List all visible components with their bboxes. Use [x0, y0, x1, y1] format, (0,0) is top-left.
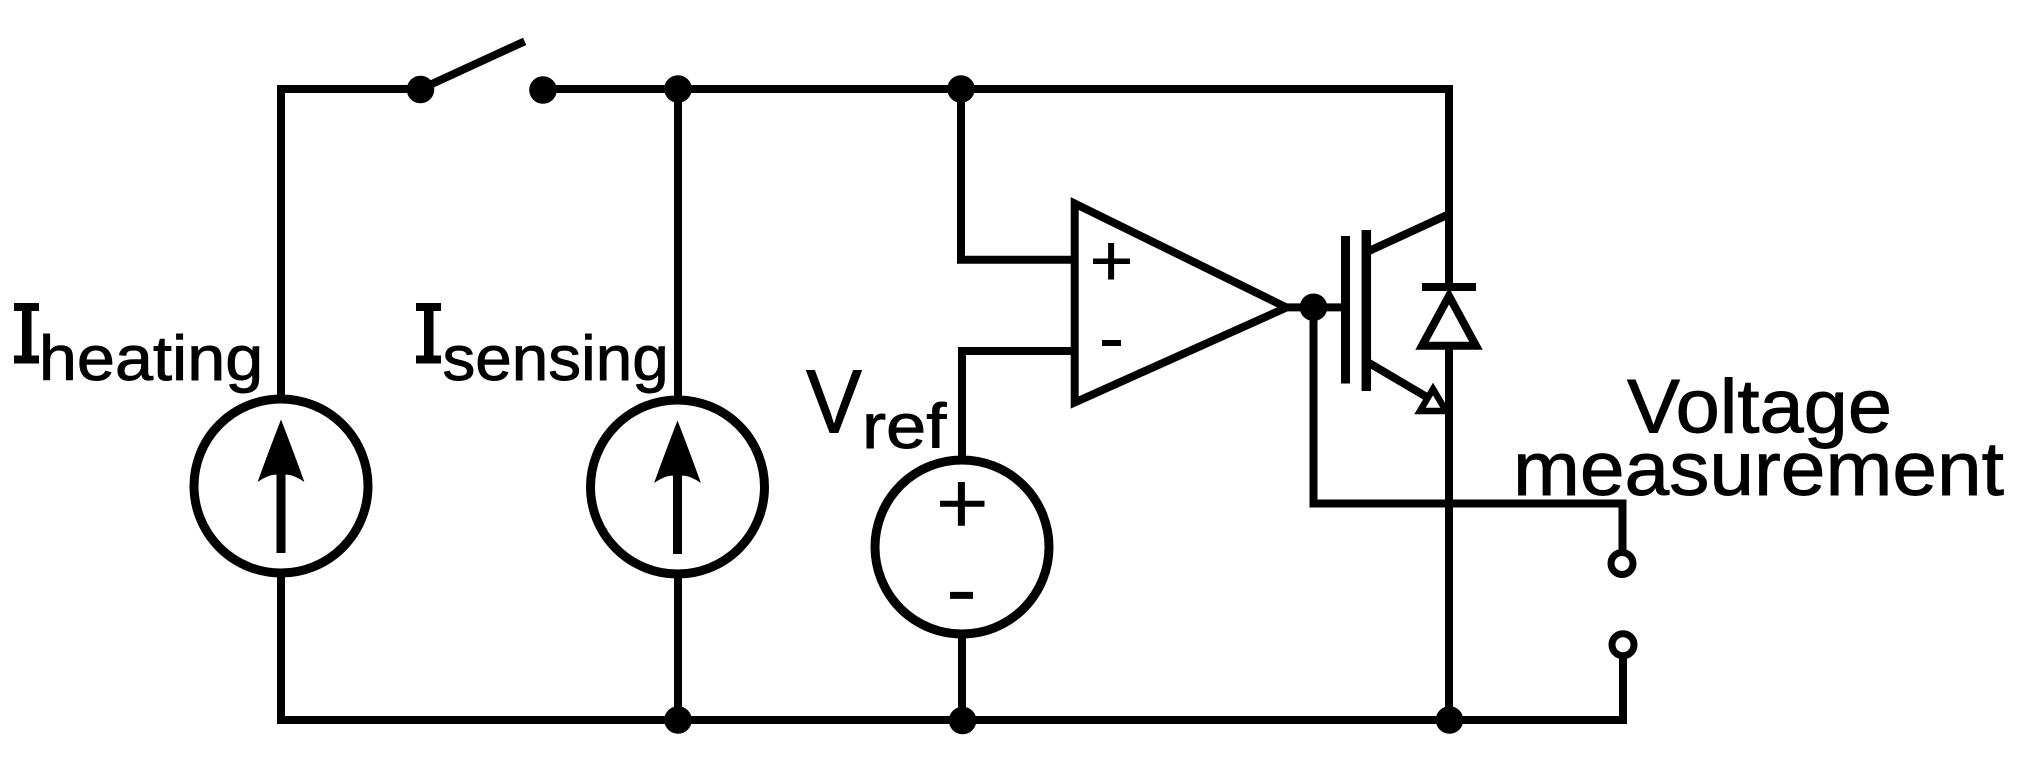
current source I1 circle (Iheating) [194, 399, 368, 573]
wire top-left rail [281, 85, 416, 93]
node dot op-amp plus branch top [947, 75, 975, 103]
node dot op-amp output / gate [1300, 294, 1328, 322]
node dot Isensing top [664, 75, 692, 103]
switch node dot right [529, 76, 557, 104]
node dot Isensing bottom [664, 706, 692, 734]
wire bottom rail [281, 716, 1623, 724]
diode D1 cathode bar [1422, 283, 1476, 291]
op-amp U1 triangle [1075, 204, 1287, 403]
wire Isensing upper [674, 93, 682, 399]
voltage source Vref circle [875, 460, 1049, 634]
current source I1 arrow [258, 420, 305, 554]
transistor Q1 emitter arrow [1420, 389, 1446, 411]
node dot Vref bottom [949, 707, 977, 735]
wire below lower terminal [1619, 658, 1627, 716]
svg-text:ref: ref [862, 392, 947, 462]
transistor Q1 IGBT gate bar left [1341, 236, 1350, 384]
op-amp minus sign [1102, 340, 1121, 346]
wire top-middle rail [547, 85, 1449, 93]
svg-text:sensing: sensing [443, 324, 669, 394]
switch node dot left [407, 76, 435, 104]
wire Vref lower [958, 634, 966, 716]
wire measurement tap: down, right, down [1314, 307, 1623, 549]
svg-text:heating: heating [39, 324, 263, 394]
wire IGBT collector vertical upper [1445, 93, 1453, 287]
terminal circle lower [1612, 634, 1634, 656]
node dot IGBT emitter bottom [1436, 706, 1464, 734]
transistor Q1 IGBT gate bar right [1362, 230, 1372, 391]
diode D1 triangle [1422, 296, 1476, 346]
wire left branch upper (Iheating) [277, 89, 285, 398]
current source I2 circle (Isensing) [591, 400, 765, 574]
wire op-amp minus input from Vref [962, 351, 1072, 462]
wire op-amp plus input from top rail [961, 93, 1072, 260]
label I of Isensing [416, 303, 441, 364]
terminal circle upper [1611, 553, 1633, 575]
wire gate lead [1313, 303, 1342, 311]
current source I2 arrow [654, 421, 701, 555]
switch blade [421, 43, 521, 89]
svg-text:measurement: measurement [1513, 427, 2004, 512]
Vref plus sign [940, 482, 985, 595]
transistor Q1 emitter diagonal [1369, 363, 1437, 403]
transistor Q1 collector diagonal [1369, 215, 1447, 251]
wire Isensing lower [674, 577, 682, 716]
wire IGBT/diode vertical lower [1445, 346, 1453, 716]
wire left branch lower (Iheating) [277, 576, 285, 716]
wire op-amp output to gate dot [1287, 303, 1313, 311]
op-amp plus sign [1093, 243, 1130, 343]
Vref minus sign [950, 592, 973, 599]
svg-text:V: V [806, 353, 862, 453]
label I of Iheating [14, 303, 39, 364]
